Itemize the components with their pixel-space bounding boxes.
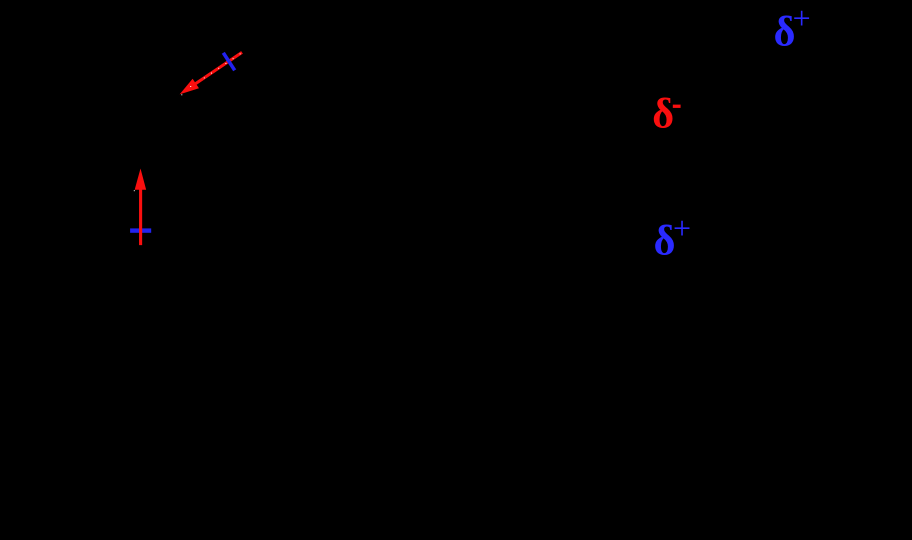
anti-alias specks on arrow 1 [181,53,240,95]
dipole arrow 2 head [135,169,147,190]
dipole arrow 1 plus-crossbar (blue) [223,53,234,71]
svg-text:δ: δ [652,92,674,138]
svg-text:+: + [673,210,691,246]
svg-text:+: + [793,0,811,36]
dipole arrow 1 shaft (diagonal, points down-left) [193,52,242,85]
dipole arrow 1 head [180,79,199,95]
anti-alias speck on arrow 2 [134,190,135,191]
dipole arrow 2 shaft (vertical, points up) [139,180,142,245]
label delta- (middle, red): superscript minus [673,105,681,108]
dipole arrow 2 plus-crossbar (blue, horizontal) [130,228,151,232]
